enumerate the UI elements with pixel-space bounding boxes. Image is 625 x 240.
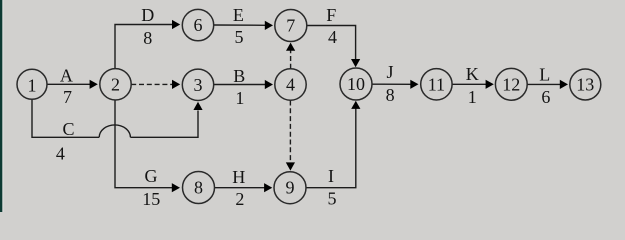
node 12 [495,68,527,100]
svg-text:7: 7 [286,16,295,36]
node 3 [182,69,213,100]
svg-text:8: 8 [143,28,152,48]
value 4 (F) [328,27,337,47]
svg-text:C: C [62,119,74,139]
svg-text:11: 11 [428,74,445,94]
svg-text:J: J [386,62,393,82]
node 8 [183,172,215,204]
wire: activity D polyline 2->6 [115,20,180,69]
svg-text:1: 1 [28,75,37,95]
left teal stripe [0,0,3,212]
label B [233,66,245,86]
svg-text:F: F [326,5,336,25]
svg-text:8: 8 [386,85,395,105]
svg-text:9: 9 [286,178,295,198]
label K [466,64,479,84]
value 6 (L) [541,87,550,107]
wire: activity G polyline 2->8 [115,100,180,192]
svg-text:15: 15 [142,189,160,209]
label J [386,62,393,82]
svg-text:5: 5 [328,188,337,208]
label C [62,119,74,139]
node 10 [340,68,372,100]
node 6 [182,9,213,40]
wire: activity E line 6->7 [214,21,273,30]
wire: dashed dummy 2->3 [131,80,180,89]
svg-text:7: 7 [63,87,72,107]
value 1 (K) [468,87,477,107]
node 9 [274,172,306,204]
value 5 (I) [328,188,337,208]
svg-text:1: 1 [468,87,477,107]
value 15 (G) [142,189,160,209]
svg-text:I: I [328,166,334,186]
svg-text:6: 6 [541,87,550,107]
svg-text:1: 1 [235,88,244,108]
wire: dashed dummy 4->9 [286,101,295,171]
node 13 [570,69,601,100]
value 8 (J) [386,85,395,105]
svg-text:12: 12 [502,74,520,94]
value 8 (D) [143,28,152,48]
wire: activity B line 3->4 [214,80,273,89]
svg-text:E: E [233,5,244,25]
wire: activity I polyline 9->10 [306,101,360,188]
label I [328,166,334,186]
value 4 (C) [56,144,65,164]
wire: activity C polyline 1->3 with hop over G [32,100,203,138]
svg-text:K: K [466,64,479,84]
svg-text:A: A [60,65,73,85]
wire: activity H line 8->9 [215,183,273,192]
wire: activity L line 12->13 [527,80,568,89]
svg-text:D: D [141,5,154,25]
label F [326,5,336,25]
label D [141,5,154,25]
label A [60,65,73,85]
value 2 (H) [235,189,244,209]
wire: activity F polyline 7->10 [307,26,360,68]
svg-text:4: 4 [286,75,295,95]
svg-text:13: 13 [576,75,594,95]
node 7 [275,10,307,42]
svg-text:5: 5 [235,27,244,47]
node 11 [421,69,452,100]
wire: activity J line 10->11 [372,80,419,89]
label E [233,5,244,25]
wire: activity A line 1->2 [47,80,98,89]
svg-text:2: 2 [111,74,120,94]
svg-text:G: G [145,166,158,186]
svg-text:4: 4 [328,27,337,47]
svg-text:10: 10 [347,74,365,94]
value 7 (A) [63,87,72,107]
svg-text:H: H [232,167,245,187]
label L [539,64,550,84]
node 4 [275,69,306,100]
value 5 (E) [235,27,244,47]
label G [145,166,158,186]
wire: dashed dummy 4->7 [286,43,295,69]
wire: activity K line 11->12 [452,80,494,89]
node 1 [17,69,47,99]
svg-text:8: 8 [194,178,203,198]
value 1 (B) [235,88,244,108]
svg-text:4: 4 [56,144,65,164]
svg-text:2: 2 [235,189,244,209]
svg-text:B: B [233,66,245,86]
svg-text:6: 6 [194,15,203,35]
svg-text:3: 3 [194,75,203,95]
label H [232,167,245,187]
svg-text:L: L [539,64,550,84]
node 2 [100,69,131,100]
